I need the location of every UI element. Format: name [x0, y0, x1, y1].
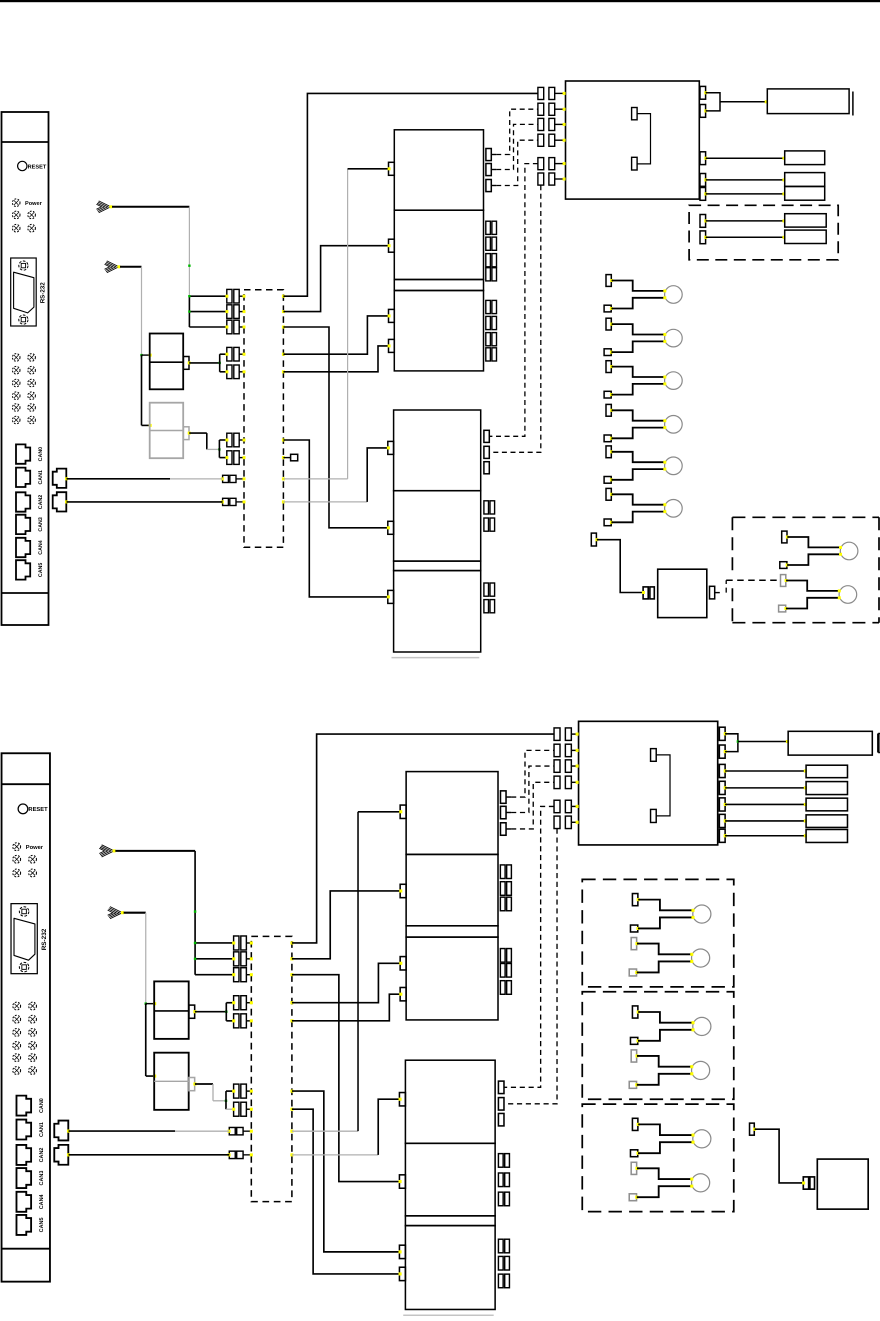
- svg-text:CAN5: CAN5: [39, 1217, 45, 1232]
- svg-text:CAN2: CAN2: [38, 495, 44, 509]
- svg-text:Power: Power: [25, 201, 43, 207]
- svg-text:CAN3: CAN3: [38, 517, 44, 531]
- svg-text:CAN0: CAN0: [39, 1098, 45, 1113]
- svg-text:CAN5: CAN5: [38, 563, 44, 577]
- svg-text:CAN1: CAN1: [38, 470, 44, 484]
- svg-text:CAN4: CAN4: [38, 540, 44, 554]
- svg-text:CAN2: CAN2: [39, 1147, 45, 1162]
- svg-text:CAN0: CAN0: [38, 447, 44, 461]
- svg-text:CAN3: CAN3: [39, 1171, 45, 1186]
- svg-text:CAN1: CAN1: [39, 1122, 45, 1137]
- svg-text:Power: Power: [26, 845, 44, 851]
- svg-text:RS-232: RS-232: [41, 928, 48, 950]
- svg-text:RESET: RESET: [28, 164, 47, 170]
- svg-text:RS-232: RS-232: [40, 282, 47, 304]
- svg-text:RESET: RESET: [28, 807, 48, 813]
- svg-text:CAN4: CAN4: [39, 1194, 45, 1209]
